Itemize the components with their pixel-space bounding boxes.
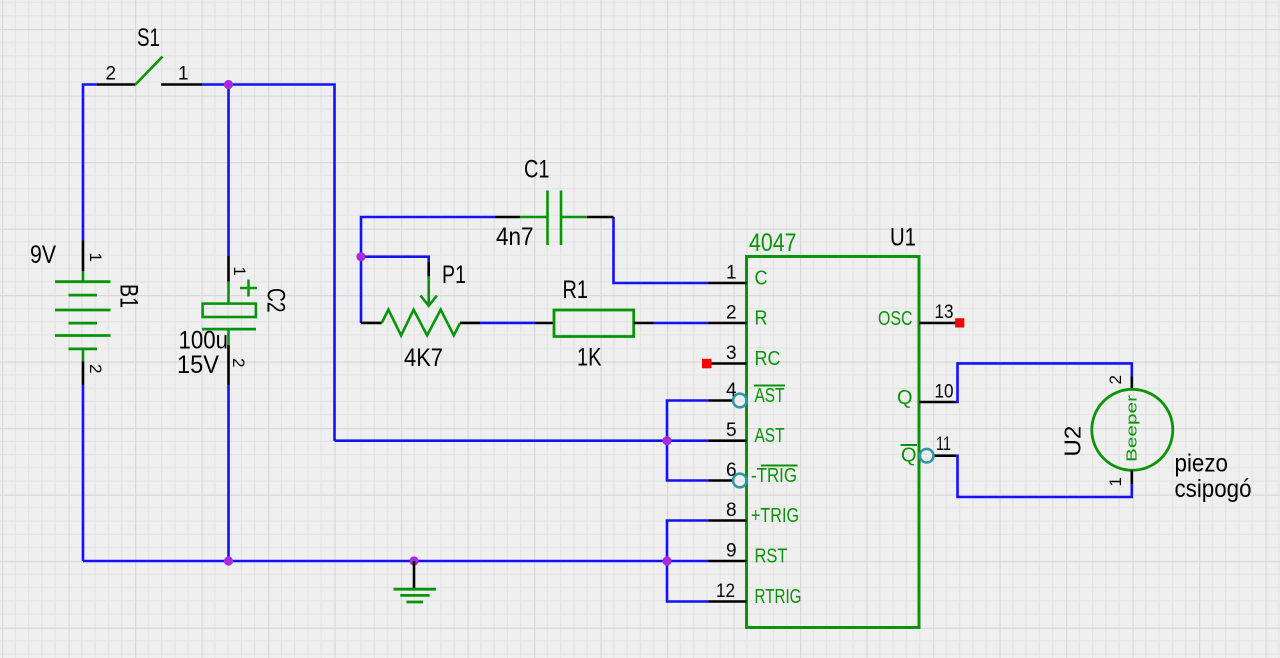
- pin 4 AST inverted: [709, 399, 734, 402]
- svg-text:AST: AST: [755, 385, 785, 407]
- svg-text:2: 2: [1106, 375, 1125, 384]
- resistor R1: [536, 310, 654, 337]
- wire Qbar pin11 to beeper pin1: [956, 456, 1132, 497]
- svg-text:C1: C1: [524, 156, 550, 184]
- bubble pin 6: [733, 474, 747, 488]
- svg-text:3: 3: [726, 343, 737, 364]
- wire C1 top left with vertical: [361, 217, 495, 323]
- capacitor C1: [495, 191, 614, 246]
- svg-text:RC: RC: [755, 348, 781, 370]
- bubble pin 4: [733, 394, 747, 408]
- svg-text:piezo: piezo: [1175, 450, 1229, 478]
- svg-text:11: 11: [936, 434, 951, 455]
- red unconnected marker pin 13: [955, 318, 964, 327]
- beeper U2: [1092, 377, 1173, 485]
- junction dot at S1/C2 top: [224, 80, 233, 89]
- wire C2 bottom to rail: [227, 385, 230, 561]
- capacitor C2: [202, 256, 257, 385]
- wire C1 right to pin 1 C: [614, 217, 709, 283]
- wire P1 to R1: [480, 322, 536, 325]
- svg-text:csipogó: csipogó: [1175, 475, 1252, 503]
- wire branch down to C2: [227, 85, 230, 257]
- svg-text:B1: B1: [115, 284, 143, 308]
- junction dot pin5 wire: [662, 436, 671, 445]
- wire Q pin10 to beeper pin2: [956, 363, 1132, 402]
- red unconnected marker pin 3: [702, 359, 712, 369]
- pin 12 RTRIG: [709, 600, 747, 603]
- wire VCC top rail from switch to corner: [202, 85, 335, 441]
- svg-text:8: 8: [726, 500, 737, 521]
- pin 5 AST: [709, 439, 747, 442]
- svg-text:R: R: [755, 308, 768, 330]
- svg-text:RST: RST: [755, 546, 788, 568]
- svg-text:U1: U1: [890, 224, 916, 252]
- pin 13 OSC: [919, 322, 957, 325]
- svg-text:-TRIG: -TRIG: [751, 465, 797, 487]
- wire battery negative down: [82, 385, 85, 561]
- battery B1: [55, 241, 111, 386]
- IC U1 body: [747, 257, 920, 628]
- svg-text:R1: R1: [563, 276, 589, 304]
- svg-text:5: 5: [726, 420, 737, 441]
- junction dot pin9 rail: [662, 556, 671, 565]
- junction dot C2 bottom rail: [224, 556, 233, 565]
- svg-text:1: 1: [230, 267, 249, 276]
- svg-text:Beeper: Beeper: [1125, 395, 1141, 462]
- wire GND bottom rail: [83, 560, 709, 563]
- wire R1 to pin 2 R: [654, 322, 709, 325]
- pin 3 RC: [712, 362, 747, 365]
- pin 6 -TRIG inverted: [709, 479, 734, 482]
- svg-text:+TRIG: +TRIG: [751, 505, 799, 527]
- svg-text:RTRIG: RTRIG: [755, 586, 802, 608]
- svg-text:S1: S1: [137, 24, 160, 52]
- svg-text:Q: Q: [897, 387, 913, 409]
- svg-text:OSC: OSC: [878, 308, 913, 330]
- svg-text:4K7: 4K7: [404, 344, 443, 372]
- wire pins 4-6 vertical: [667, 401, 709, 481]
- svg-text:2: 2: [229, 358, 248, 367]
- svg-text:1: 1: [1106, 477, 1125, 486]
- svg-text:2: 2: [86, 364, 105, 373]
- svg-text:2: 2: [106, 64, 117, 85]
- pin 1 C: [709, 282, 747, 285]
- ground symbol: [394, 561, 436, 602]
- switch S1: [97, 57, 202, 85]
- pin 11 Q inverted: [934, 454, 956, 457]
- svg-text:4n7: 4n7: [496, 223, 534, 251]
- svg-text:12: 12: [716, 581, 735, 602]
- svg-text:1K: 1K: [577, 344, 602, 372]
- svg-text:6: 6: [726, 460, 737, 481]
- svg-text:9V: 9V: [30, 241, 56, 269]
- svg-text:AST: AST: [755, 425, 785, 447]
- svg-text:4: 4: [726, 380, 737, 401]
- svg-text:1: 1: [178, 64, 189, 85]
- svg-text:1: 1: [726, 263, 737, 284]
- svg-text:15V: 15V: [177, 351, 219, 379]
- svg-text:2: 2: [726, 303, 737, 324]
- svg-text:9: 9: [726, 541, 737, 562]
- wire node to P1 wiper: [361, 257, 429, 262]
- potentiometer P1: [361, 262, 480, 335]
- pin 9 RST: [709, 560, 747, 563]
- junction dot node P1 branch: [356, 252, 365, 261]
- svg-text:P1: P1: [442, 261, 466, 289]
- svg-text:13: 13: [935, 302, 954, 323]
- svg-text:1: 1: [86, 253, 105, 262]
- wire pins 8-12 vertical: [667, 521, 709, 602]
- pin 2 R: [709, 322, 747, 325]
- svg-text:10: 10: [935, 382, 954, 403]
- junction dot ground rail: [409, 556, 418, 565]
- pin 10 Q: [919, 401, 956, 404]
- wire long run to pin 5 AST: [335, 439, 709, 442]
- svg-text:U2: U2: [1060, 426, 1086, 457]
- svg-text:Q: Q: [901, 445, 917, 467]
- svg-text:C: C: [755, 268, 768, 290]
- bubble pin 11: [920, 449, 934, 463]
- svg-text:4047: 4047: [749, 229, 797, 257]
- svg-text:C2: C2: [262, 288, 290, 313]
- wire VCC left vertical to battery: [83, 85, 97, 241]
- pin 8 +TRIG: [709, 519, 747, 522]
